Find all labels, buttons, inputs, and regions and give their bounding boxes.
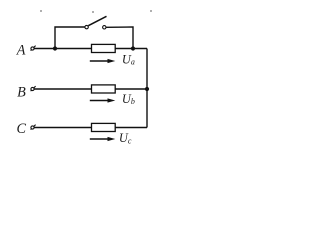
wire bus right — [146, 49, 148, 128]
svg-text:A: A — [16, 42, 26, 58]
wire C left — [34, 127, 92, 129]
terminal B — [31, 86, 36, 91]
wire B right — [115, 88, 147, 90]
node junction A-left — [53, 46, 57, 50]
resistor Rb — [92, 85, 116, 93]
terminal A — [31, 46, 36, 51]
wire riser from node A-left up to switch S1 — [55, 27, 85, 49]
wire A left — [34, 48, 92, 50]
svg-text:Ub: Ub — [122, 92, 135, 106]
wire from switch S1 down to node A-right — [106, 27, 133, 49]
terminal C — [31, 125, 36, 130]
wire C right — [115, 127, 147, 129]
resistor Ra — [92, 44, 116, 52]
resistor Rc — [92, 123, 116, 131]
arrow Ua — [90, 59, 116, 63]
node junction B-bus — [145, 87, 149, 91]
svg-text:Ua: Ua — [122, 52, 135, 66]
wire B left — [34, 88, 92, 90]
node junction A-right — [131, 46, 135, 50]
arrow Uc — [90, 137, 116, 141]
wire A right — [115, 48, 147, 50]
switch S1 right contact — [103, 26, 106, 29]
switch S1 left contact — [85, 25, 88, 28]
svg-text:C: C — [17, 121, 27, 137]
arrow Ub — [90, 98, 116, 102]
svg-text:Uc: Uc — [119, 131, 132, 145]
switch S1 blade (open) — [88, 16, 106, 25]
svg-text:B: B — [17, 84, 26, 100]
